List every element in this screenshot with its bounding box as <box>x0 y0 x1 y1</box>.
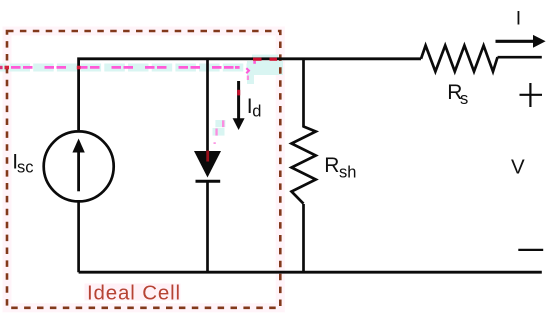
current arrow I <box>496 35 546 48</box>
annotation diagonal artifact dashes <box>213 76 250 144</box>
annotation red overlap dashes on wire <box>0 58 277 70</box>
cyan highlight band of annotation line <box>0 55 283 84</box>
wire: top rail Rsh node to Rs <box>304 57 422 60</box>
label V <box>511 156 525 179</box>
wire: bottom rail <box>79 271 542 274</box>
wire: top rail from current source corner to diode node <box>79 59 208 130</box>
wire: Rsh branch bottom <box>302 204 305 272</box>
label Id <box>247 95 262 121</box>
wire: diode branch top <box>206 59 209 152</box>
annotation red mark on diode <box>206 151 209 162</box>
svg-text:R: R <box>324 154 339 177</box>
annotation hook mark <box>235 61 256 73</box>
pink halo around ideal-cell dashed border <box>7 31 280 308</box>
wire: output top stub <box>498 56 542 59</box>
svg-text:sh: sh <box>339 164 356 182</box>
annotation dashed line (magenta) <box>0 66 240 69</box>
wire: top rail diode node to Rsh node <box>208 57 304 60</box>
label "Ideal Cell" <box>87 281 181 304</box>
ideal cell boundary (dashed box) <box>7 31 280 308</box>
label Rsh <box>324 154 356 182</box>
resistor Rs <box>421 46 498 72</box>
svg-text:V: V <box>511 156 525 179</box>
terminal minus <box>518 249 543 251</box>
terminal plus <box>520 83 543 107</box>
svg-text:s: s <box>460 90 468 108</box>
svg-text:Ideal Cell: Ideal Cell <box>87 281 181 304</box>
current arrow Id <box>233 81 245 130</box>
wire: diode branch bottom <box>206 180 209 272</box>
wire: current source bottom to bottom rail <box>77 201 80 272</box>
wire: Rsh branch top <box>302 59 305 128</box>
svg-text:I: I <box>516 8 521 30</box>
diode <box>194 151 221 181</box>
current source Isc <box>44 131 114 201</box>
resistor Rsh <box>292 127 316 204</box>
svg-text:d: d <box>252 103 261 121</box>
label I <box>516 8 521 30</box>
svg-text:sc: sc <box>17 158 34 176</box>
label Rs <box>447 81 468 108</box>
label Isc <box>12 150 33 176</box>
